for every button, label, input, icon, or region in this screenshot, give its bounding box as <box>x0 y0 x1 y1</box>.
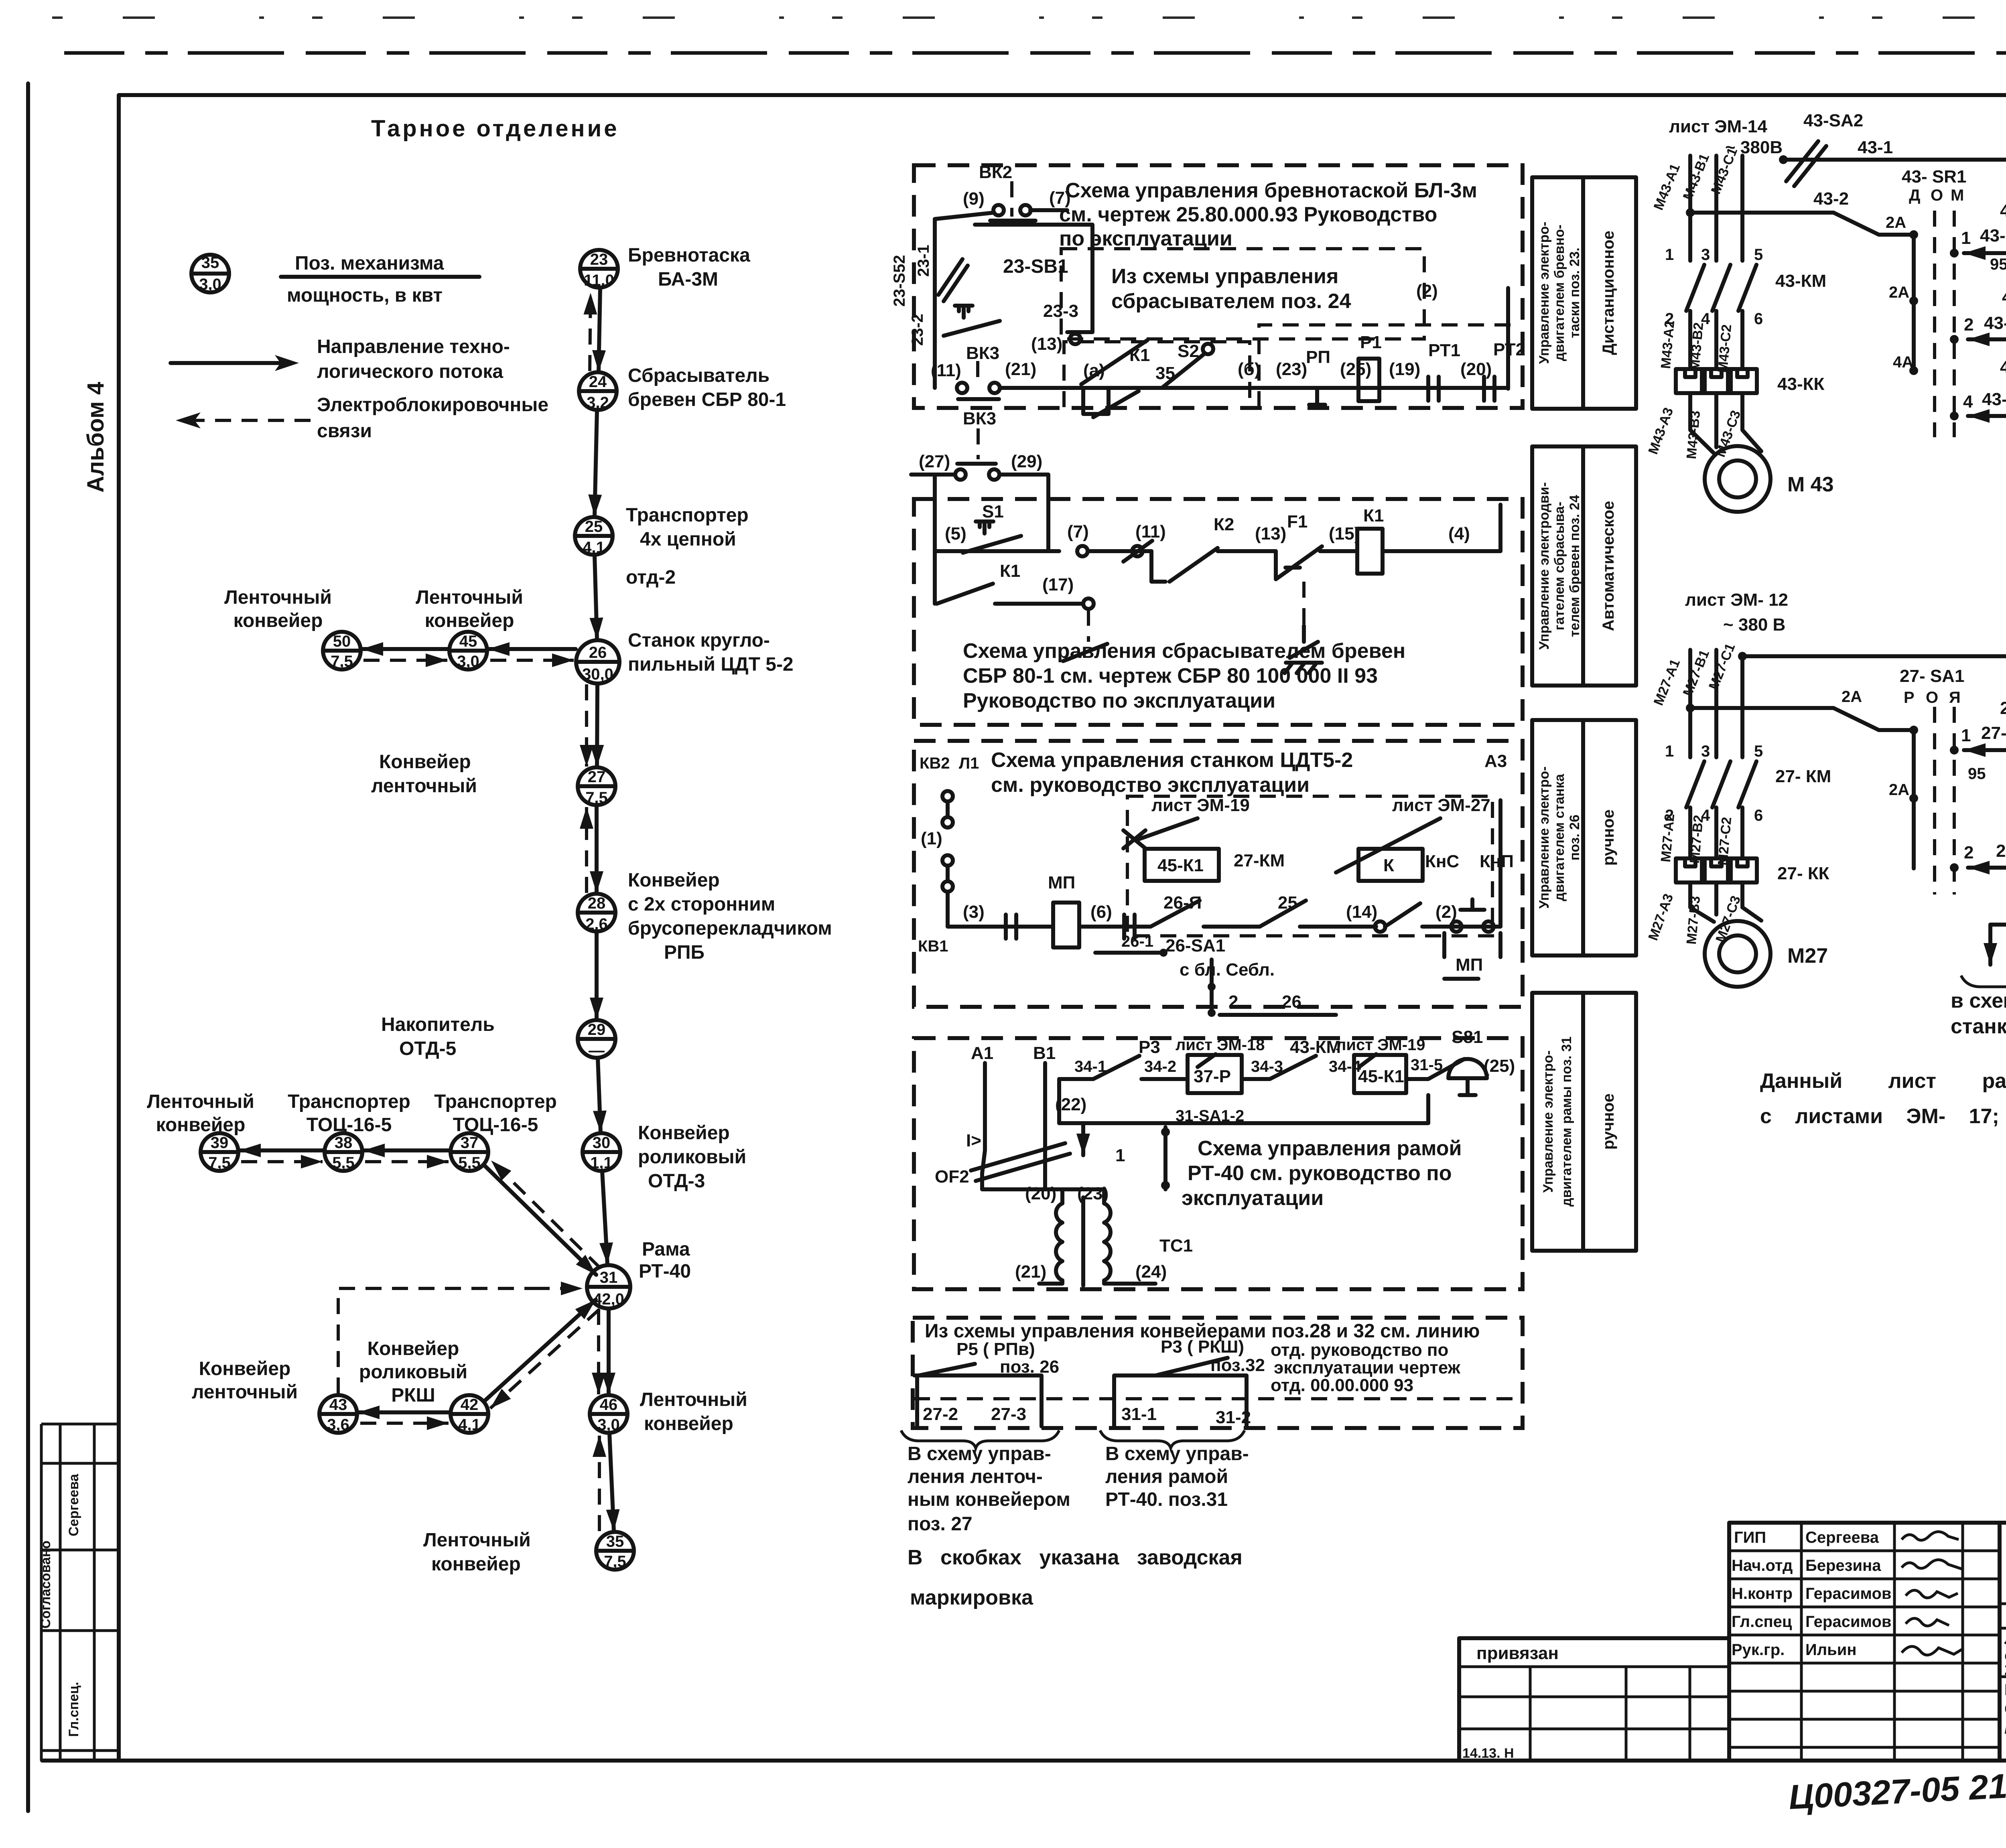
svg-text:отд. руководство по: отд. руководство по <box>1271 1340 1448 1360</box>
svg-text:43- SВ2: 43- SВ2 <box>2000 201 2006 221</box>
svg-text:ВК3: ВК3 <box>966 343 999 363</box>
svg-text:РПБ: РПБ <box>664 942 705 963</box>
phase M27-A1 <box>1688 650 1692 757</box>
svg-text:34-3: 34-3 <box>1251 1058 1283 1075</box>
svg-text:РКШ: РКШ <box>391 1385 435 1406</box>
svg-text:КнП: КнП <box>1480 852 1514 871</box>
svg-text:(19): (19) <box>1389 359 1420 379</box>
svg-text:(21): (21) <box>1015 1262 1046 1282</box>
node rail start <box>1779 155 1788 164</box>
svg-text:М27: М27 <box>1787 944 1828 968</box>
svg-text:БА-3М: БА-3М <box>658 269 718 290</box>
svg-text:ления ленточ-: ления ленточ- <box>908 1466 1043 1487</box>
svg-text:(13): (13) <box>1255 524 1286 544</box>
svg-text:О: О <box>1931 187 1943 204</box>
brace left <box>901 1430 1059 1448</box>
transformer core <box>1081 1197 1085 1286</box>
svg-text:4,1: 4,1 <box>458 1416 481 1434</box>
svg-text:26-SА1: 26-SА1 <box>1165 936 1225 955</box>
svg-text:3,0: 3,0 <box>199 276 221 293</box>
sheet outer left edge line <box>26 83 30 1811</box>
svg-text:Герасимов: Герасимов <box>1805 1613 1892 1631</box>
svg-text:РП: РП <box>1306 347 1330 367</box>
svg-text:по эксплуатации: по эксплуатации <box>1059 227 1232 250</box>
node 37 <box>451 1133 488 1172</box>
svg-text:3: 3 <box>1701 742 1710 760</box>
svg-text:43-3: 43-3 <box>1980 226 2006 245</box>
side label table block1 <box>1532 177 1636 409</box>
svg-text:пильный ЦДТ 5-2: пильный ЦДТ 5-2 <box>628 654 794 675</box>
svg-text:К2: К2 <box>1214 515 1234 534</box>
svg-text:ТОЦ-16-5: ТОЦ-16-5 <box>453 1114 538 1136</box>
wire 37-38 <box>363 1148 450 1152</box>
svg-text:31: 31 <box>600 1269 618 1286</box>
svg-text:Из схемы управления: Из схемы управления <box>1111 265 1338 288</box>
interlock dash-dot frame <box>1127 796 1492 936</box>
svg-text:Я: Я <box>1949 689 1961 706</box>
svg-text:30,0: 30,0 <box>582 665 613 683</box>
svg-text:43- КТ: 43- КТ <box>2002 287 2006 307</box>
svg-text:Конвейер: Конвейер <box>379 751 471 773</box>
svg-text:35: 35 <box>606 1533 624 1550</box>
svg-text:3,0: 3,0 <box>457 653 479 670</box>
svg-text:Накопитель: Накопитель <box>381 1014 495 1035</box>
svg-text:14.13. Н: 14.13. Н <box>1462 1746 1514 1761</box>
node 24 <box>579 372 617 412</box>
svg-text:Д: Д <box>1909 187 1921 204</box>
tap to selector <box>1690 213 1914 235</box>
TITLEBLOCK <box>1459 1523 2006 1817</box>
svg-text:МП: МП <box>1456 955 1483 975</box>
wire 25-26 <box>595 555 597 639</box>
svg-text:Управление электро-: Управление электро- <box>1537 767 1552 909</box>
svg-text:телем бревен поз. 24: телем бревен поз. 24 <box>1567 495 1582 637</box>
node 35 bottom <box>596 1532 634 1570</box>
svg-text:37-Р: 37-Р <box>1194 1067 1231 1086</box>
svg-text:брусоперекладчиком: брусоперекладчиком <box>628 918 832 939</box>
svg-text:Руководство по эксплуатац: Руководство по эксплуатации <box>963 689 1275 712</box>
node 29 <box>578 1020 615 1059</box>
svg-text:ВК2: ВК2 <box>979 162 1012 182</box>
wire 26-45 <box>488 647 576 651</box>
svg-text:2А: 2А <box>1842 688 1862 706</box>
svg-text:станком ЦДТ5-2 поз. 26: станком ЦДТ5-2 поз. 26 <box>1951 1015 2006 1038</box>
wire 30-31 <box>602 1171 607 1264</box>
svg-text:К1: К1 <box>1000 561 1020 581</box>
ladder row2 <box>1968 337 2006 341</box>
wire 27-28 <box>595 805 599 893</box>
svg-text:Управление электро-: Управление электро- <box>1537 222 1552 364</box>
svg-text:26: 26 <box>1282 992 1301 1012</box>
wire left rail <box>933 219 937 388</box>
svg-text:мощность, в квт: мощность, в квт <box>287 285 443 306</box>
brace right <box>1100 1430 1245 1448</box>
legend position circle <box>191 254 229 293</box>
svg-text:43-6: 43-6 <box>1982 389 2006 409</box>
top supply rail <box>1742 656 2006 782</box>
interlock note dashed box poz.24 <box>1061 249 1424 339</box>
side label table block3 <box>1532 720 1636 955</box>
svg-text:5,5: 5,5 <box>458 1154 481 1172</box>
svg-text:Конвейер: Конвейер <box>367 1338 459 1359</box>
svg-text:1: 1 <box>1665 246 1674 264</box>
svg-text:45: 45 <box>459 633 477 650</box>
svg-text:50: 50 <box>333 633 351 650</box>
svg-text:Электроблокировочные: Электроблокировочные <box>317 394 548 416</box>
svg-text:2: 2 <box>1964 843 1974 862</box>
svg-text:(25): (25) <box>1340 359 1371 379</box>
svg-text:23-2: 23-2 <box>909 314 926 346</box>
svg-text:27-2: 27-2 <box>923 1404 958 1424</box>
svg-text:43-2: 43-2 <box>1813 189 1849 209</box>
node 46 <box>590 1395 627 1434</box>
svg-text:31-1: 31-1 <box>1121 1404 1157 1424</box>
svg-text:35: 35 <box>201 254 219 272</box>
svg-text:26: 26 <box>589 644 607 661</box>
ladder row1 <box>1964 251 2006 255</box>
svg-text:ным конвейером: ным конвейером <box>908 1489 1070 1510</box>
svg-text:2: 2 <box>1228 992 1238 1012</box>
svg-text:М: М <box>1951 187 1964 204</box>
svg-text:45-К1: 45-К1 <box>1358 1067 1404 1086</box>
svg-text:23: 23 <box>590 251 608 268</box>
wire 29-30 <box>598 1058 601 1132</box>
motor leads <box>1690 882 1761 922</box>
contact window 31 <box>1114 1375 1247 1426</box>
svg-text:(3): (3) <box>963 902 985 922</box>
contact window 27 <box>917 1375 1042 1426</box>
svg-text:Данный лист рассматрив: Данный лист рассматривать совместно <box>1760 1069 2006 1093</box>
svg-text:Станок кругло-: Станок кругло- <box>628 630 770 651</box>
svg-text:7,5: 7,5 <box>585 789 608 807</box>
svg-text:23-S52: 23-S52 <box>891 255 908 307</box>
top supply rail 43-1 <box>1783 160 2006 487</box>
signatures <box>1902 1532 1959 1540</box>
node 31 <box>587 1265 630 1308</box>
wire 42-43 <box>358 1410 450 1414</box>
node 42 <box>451 1395 488 1434</box>
svg-text:роликовый: роликовый <box>359 1361 467 1383</box>
svg-text:(7): (7) <box>1049 188 1071 208</box>
svg-text:Конвейер: Конвейер <box>199 1358 291 1379</box>
svg-text:эксплуатации: эксплуатации <box>1182 1187 1324 1210</box>
svg-text:конвейер: конвейер <box>431 1554 521 1575</box>
svg-text:3,6: 3,6 <box>327 1416 349 1434</box>
svg-text:(7): (7) <box>1067 522 1089 542</box>
svg-text:ленточный: ленточный <box>192 1381 298 1403</box>
phase M43-A1 <box>1688 156 1692 261</box>
switch 23-SA2 <box>938 259 968 301</box>
thermal overload 27-KK <box>1676 858 1705 882</box>
switch 23-3 <box>944 306 1000 336</box>
svg-text:24: 24 <box>589 373 607 391</box>
svg-text:7,5: 7,5 <box>208 1154 231 1172</box>
svg-text:Схема управления рамой: Схема управления рамой <box>1198 1137 1462 1160</box>
svg-text:27- SА1: 27- SА1 <box>1900 666 1964 686</box>
tap to selector <box>1690 708 1914 730</box>
svg-text:К1: К1 <box>1129 345 1150 365</box>
svg-text:с листами ЭМ- 17; ЭМ- 1: с листами ЭМ- 17; ЭМ- 19. <box>1760 1105 2006 1128</box>
svg-text:11,0: 11,0 <box>584 272 614 289</box>
svg-text:43-1: 43-1 <box>1858 138 1893 157</box>
svg-text:поз. 27: поз. 27 <box>908 1513 973 1535</box>
svg-text:Согласовано: Согласовано <box>38 1541 53 1629</box>
contactor K box <box>1358 849 1423 881</box>
svg-text:27- 3: 27- 3 <box>1996 841 2006 861</box>
svg-text:ТОЦ-16-5: ТОЦ-16-5 <box>307 1114 392 1136</box>
ladder row1 <box>1964 748 2006 752</box>
svg-text:Конвейер: Конвейер <box>638 1122 730 1144</box>
node 25 <box>575 517 613 556</box>
M43 : conveyor 43 motor circuit <box>1645 111 2006 651</box>
svg-text:5: 5 <box>1754 742 1763 760</box>
svg-text:Схемы электрические принци-: Схемы электрические принци- <box>2004 1700 2006 1718</box>
svg-text:Л1: Л1 <box>959 755 979 772</box>
svg-text:25: 25 <box>585 518 603 536</box>
phase M27-B1 <box>1714 650 1718 757</box>
node 43 <box>319 1395 357 1434</box>
svg-text:1: 1 <box>1961 228 1971 248</box>
block4 outer dashed box <box>914 1038 1523 1289</box>
svg-text:23-SВ1: 23-SВ1 <box>1003 256 1068 277</box>
svg-text:34-2: 34-2 <box>1144 1058 1176 1075</box>
svg-text:ГИП: ГИП <box>1734 1529 1766 1546</box>
interlock dashed link <box>914 1397 1521 1400</box>
svg-text:(29): (29) <box>1011 452 1042 471</box>
svg-text:—: — <box>589 1042 605 1059</box>
wire 26-27 <box>597 684 597 767</box>
svg-text:I>: I> <box>966 1131 981 1150</box>
inner dashed sub-box left <box>1064 342 1250 407</box>
svg-text:2А: 2А <box>1886 214 1906 231</box>
svg-text:Поз. механизма: Поз. механизма <box>295 253 444 274</box>
svg-text:29: 29 <box>588 1021 606 1039</box>
svg-text:с 2х сторонним: с 2х сторонним <box>628 894 775 915</box>
svg-text:А3: А3 <box>1484 751 1507 771</box>
wire 42-31 diagonal <box>484 1300 596 1402</box>
svg-text:гателем сбрасыва-: гателем сбрасыва- <box>1552 502 1567 631</box>
svg-text:Конвейер: Конвейер <box>628 870 720 891</box>
svg-text:Ленточный: Ленточный <box>640 1389 747 1410</box>
svg-text:в схему управления: в схему управления <box>1951 989 2006 1012</box>
svg-text:сбрасывателем поз. 24: сбрасывателем поз. 24 <box>1111 290 1351 313</box>
svg-text:Ленточный: Ленточный <box>423 1530 531 1551</box>
svg-text:Ленточный: Ленточный <box>224 587 332 608</box>
svg-text:поз. 26: поз. 26 <box>1567 815 1582 860</box>
svg-text:конвейер: конвейер <box>156 1114 246 1136</box>
svg-text:(11): (11) <box>931 361 961 380</box>
svg-text:РТ-40 см. руководство по: РТ-40 см. руководство по <box>1188 1162 1452 1185</box>
svg-text:(24): (24) <box>1135 1262 1167 1282</box>
svg-text:В скобках указана заводс: В скобках указана заводская <box>908 1546 1243 1569</box>
svg-text:Рама: Рама <box>642 1239 690 1260</box>
svg-text:таски поз. 23.: таски поз. 23. <box>1567 247 1582 338</box>
svg-text:РТ-40. поз.31: РТ-40. поз.31 <box>1105 1489 1228 1510</box>
interlock dashed path 43 to 31 <box>338 1288 534 1394</box>
svg-text:34-4: 34-4 <box>1329 1058 1361 1075</box>
svg-text:О: О <box>1926 689 1938 706</box>
svg-text:(23): (23) <box>1276 359 1307 379</box>
LEGEND <box>171 116 619 442</box>
M27 : conveyor 27 motor circuit <box>1645 590 2006 987</box>
svg-text:Березина: Березина <box>1805 1557 1881 1574</box>
svg-text:ОF2: ОF2 <box>935 1167 969 1187</box>
svg-text:2: 2 <box>1964 315 1974 335</box>
svg-text:двигателем станка: двигателем станка <box>1552 773 1567 901</box>
svg-text:пиальная управления(продолжени: пиальная управления(продолжение) <box>2004 1720 2006 1737</box>
svg-text:(2): (2) <box>1435 902 1457 922</box>
wire 24-25 <box>595 410 597 516</box>
svg-text:маркировка: маркировка <box>910 1586 1033 1609</box>
svg-text:ленточный: ленточный <box>371 775 477 797</box>
svg-text:95: 95 <box>1968 765 1986 783</box>
side label table block4 <box>1532 993 1636 1251</box>
block1 bottom rail <box>1000 288 1508 389</box>
svg-text:3: 3 <box>1701 246 1710 264</box>
svg-text:РТ2: РТ2 <box>1493 340 1525 359</box>
block2 main rail <box>935 505 1500 551</box>
node 38 <box>325 1133 362 1172</box>
svg-text:1: 1 <box>1961 726 1971 745</box>
node 27 <box>578 767 615 807</box>
svg-text:F1: F1 <box>1287 512 1308 531</box>
svg-text:ОТД-3: ОТД-3 <box>648 1170 705 1192</box>
svg-text:(1): (1) <box>921 829 942 848</box>
svg-text:28: 28 <box>588 895 606 912</box>
svg-text:КВ2: КВ2 <box>920 755 950 772</box>
block3 outer dashed box <box>914 741 1523 1007</box>
svg-text:В схему управ-: В схему управ- <box>908 1443 1051 1465</box>
top dotted scan edge <box>52 16 2006 19</box>
svg-text:1,1: 1,1 <box>590 1154 613 1172</box>
svg-text:Сбрасыватель: Сбрасыватель <box>628 365 770 386</box>
svg-text:лист ЭМ-14: лист ЭМ-14 <box>1669 117 1767 136</box>
ladder row3 <box>1968 414 2006 418</box>
BLOCK1 : log-haul BL-3M control <box>891 162 1636 417</box>
thermal overload 43-KK <box>1676 369 1705 393</box>
wire 31-46 <box>607 1309 611 1394</box>
svg-text:31-5: 31-5 <box>1411 1056 1443 1074</box>
svg-text:ления рамой: ления рамой <box>1105 1466 1228 1487</box>
svg-text:2А: 2А <box>1889 781 1909 799</box>
svg-text:Нач.отд: Нач.отд <box>1732 1557 1793 1574</box>
svg-text:двигателем бревно-: двигателем бревно- <box>1552 225 1567 361</box>
wire 23-24 <box>599 288 600 372</box>
svg-text:Гл.спец: Гл.спец <box>1732 1613 1792 1631</box>
svg-text:4х цепной: 4х цепной <box>640 529 736 550</box>
svg-text:Транспортер: Транспортер <box>626 505 749 526</box>
legend fraction text <box>281 253 479 306</box>
svg-text:Транспортер: Транспортер <box>434 1091 557 1112</box>
svg-text:РТ1: РТ1 <box>1428 341 1460 360</box>
svg-text:конвейер: конвейер <box>425 610 514 631</box>
svg-text:ручное: ручное <box>1600 1093 1617 1150</box>
svg-text:(11): (11) <box>1135 522 1166 542</box>
svg-text:26-1: 26-1 <box>1121 933 1153 950</box>
svg-text:(27): (27) <box>919 452 950 471</box>
wire 28-29 <box>595 932 599 1019</box>
svg-text:(2): (2) <box>1416 281 1438 301</box>
svg-text:3,0: 3,0 <box>597 1416 620 1434</box>
svg-text:(17): (17) <box>1042 575 1074 594</box>
contact 45-K1 box <box>1145 849 1219 881</box>
BLOCK3 : saw machine CDT5-2 control <box>914 720 1636 1017</box>
svg-text:Дистанционное: Дистанционное <box>1600 231 1617 355</box>
svg-text:Р: Р <box>1904 689 1915 706</box>
contactor poles 43-KM <box>1686 265 1756 311</box>
svg-text:Транспортер: Транспортер <box>288 1091 410 1112</box>
svg-text:Бревнотаска: Бревнотаска <box>628 245 750 266</box>
legend solid flow arrow <box>171 361 287 365</box>
motor M27 <box>1705 921 1770 987</box>
svg-text:с бл. Себл.: с бл. Себл. <box>1180 960 1275 980</box>
svg-text:4А: 4А <box>1893 353 1913 371</box>
legend dashed interlock arrow <box>189 419 317 422</box>
svg-text:~ 380 В: ~ 380 В <box>1723 615 1785 635</box>
svg-text:37: 37 <box>461 1134 479 1152</box>
svg-text:2А: 2А <box>1889 284 1909 301</box>
svg-text:двигателем рамы поз. 31: двигателем рамы поз. 31 <box>1559 1037 1574 1207</box>
svg-text:А1: А1 <box>971 1043 993 1063</box>
svg-text:Автоматическое: Автоматическое <box>1600 501 1617 631</box>
svg-text:ВК3: ВК3 <box>963 409 996 428</box>
svg-text:Направление техно-: Направление техно- <box>317 336 510 357</box>
svg-text:Ленточный: Ленточный <box>416 587 523 608</box>
svg-text:Тарное отделение: Тарное отделение <box>371 116 619 142</box>
relay box 37-R <box>1188 1055 1242 1093</box>
phase M27-C1 <box>1740 656 1744 757</box>
svg-text:отд. 00.00.000 93: отд. 00.00.000 93 <box>1271 1375 1413 1395</box>
svg-text:отд-2: отд-2 <box>626 567 676 588</box>
svg-text:В1: В1 <box>1033 1043 1056 1063</box>
svg-text:(14): (14) <box>1346 902 1377 922</box>
svg-text:27: 27 <box>588 768 606 786</box>
svg-text:МП: МП <box>1048 873 1075 893</box>
svg-text:Р5 ( РПв): Р5 ( РПв) <box>956 1339 1035 1359</box>
svg-text:43: 43 <box>329 1396 347 1414</box>
svg-text:42,0: 42,0 <box>593 1290 624 1308</box>
svg-text:КВ1: КВ1 <box>918 937 948 955</box>
svg-text:Р1: Р1 <box>1360 333 1382 352</box>
svg-text:СБР 80-1 см. чертеж СБР 80 1: СБР 80-1 см. чертеж СБР 80 100 000 II 93 <box>963 664 1378 688</box>
svg-text:43-SА2: 43-SА2 <box>1803 111 1863 130</box>
svg-text:(б): (б) <box>1238 359 1260 379</box>
svg-text:К1: К1 <box>1363 506 1384 525</box>
motor M43 <box>1705 446 1770 512</box>
svg-text:(4): (4) <box>1448 524 1470 544</box>
svg-text:см. чертеж 25.80.000.93 Руков: см. чертеж 25.80.000.93 Руководство <box>1059 203 1437 226</box>
wire 45-50 <box>361 647 449 651</box>
node 45 <box>449 632 487 670</box>
BLOCK2 : log thrower SBR80-1 control <box>911 409 1636 725</box>
phase M43-B1 <box>1714 156 1718 261</box>
svg-text:Управление электродви-: Управление электродви- <box>1537 482 1552 650</box>
svg-text:95: 95 <box>1990 256 2006 273</box>
svg-text:5: 5 <box>1754 246 1763 264</box>
svg-text:(20): (20) <box>1025 1184 1056 1203</box>
svg-text:см. руководство эксплуатац: см. руководство эксплуатации <box>991 773 1310 797</box>
svg-text:1: 1 <box>1665 742 1674 760</box>
svg-text:привязан: привязан <box>1476 1643 1559 1663</box>
stamp outline <box>1459 1523 2006 1761</box>
svg-text:39: 39 <box>211 1134 229 1152</box>
stamp grid <box>1459 1523 2006 1761</box>
svg-text:38: 38 <box>335 1134 353 1152</box>
svg-text:эксплуатации чертеж: эксплуатации чертеж <box>1274 1358 1461 1377</box>
svg-text:К: К <box>1383 856 1394 875</box>
svg-text:25 тыс. м³ сырая в год: 25 тыс. м³ сырая в год <box>2004 1661 2006 1679</box>
svg-text:45-К1: 45-К1 <box>1157 856 1204 875</box>
